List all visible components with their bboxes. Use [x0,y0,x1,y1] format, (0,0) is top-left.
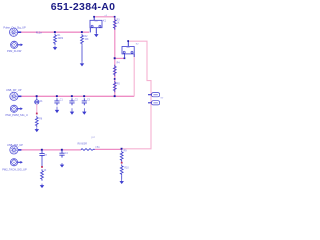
pin K2 bottom left [124,54,126,58]
resistor R4 [113,65,116,77]
ground arrow R2 [80,62,83,66]
resistor R3 top right [114,16,116,18]
svg-text:C1: C1 [60,99,64,101]
connector J2 [11,41,23,48]
capacitor C5 inline [39,151,44,158]
ground arrow C1 [55,107,58,113]
capacitor C4 [59,151,64,158]
node R9 R10 red [121,162,123,164]
svg-text:C4: C4 [65,153,69,155]
wire vertical mid net [114,28,116,97]
ground arrow R10 [120,180,123,184]
ground arrow R6 [35,128,38,132]
resistor R6 [35,116,38,128]
wire D1 down [36,104,38,113]
node row3 x42 [41,149,43,151]
svg-text:10K: 10K [85,39,90,41]
svg-text:1K: 1K [117,23,120,25]
resistor R1 [54,34,57,46]
capacitor C1 [54,98,59,105]
node row1 x55 [54,31,56,33]
svg-text:C2: C2 [75,99,79,101]
ground arrow C3 [83,108,86,114]
resistor R5 [113,81,116,93]
sheet pin PWR [148,93,164,100]
svg-text:gnd: gnd [91,136,96,139]
wire row3 right of series resistor [95,148,123,150]
connector J1 [10,28,22,36]
node x42 red [41,166,43,168]
node row2 x72 [71,95,73,97]
svg-text:PM2_FLOW: PM2_FLOW [7,49,22,53]
connector J5 [10,146,22,154]
ground arrow K1 [95,33,98,37]
svg-text:USB_DP_UP: USB_DP_UP [6,88,22,92]
svg-text:R9: R9 [124,150,128,152]
wire row2 net from connector J3 [21,95,134,97]
resistor R2 [81,34,84,46]
resistor R10 [120,164,123,176]
node row2 x115 [114,95,116,97]
ground arrow R7 [40,184,43,188]
wire top right path from relay K2 top [122,41,151,149]
capacitor C3 [82,98,87,105]
svg-text:R1: R1 [58,35,62,37]
capacitor C2 [69,98,74,105]
svg-text:R3: R3 [117,20,121,22]
svg-text:R8 600R: R8 600R [78,142,88,145]
svg-text:R10: R10 [124,167,129,169]
relay K1 [90,16,102,33]
connector J6 [10,159,22,166]
wire R2 down [81,45,83,62]
wire branch to relay K2 pin [115,57,125,59]
svg-text:K2: K2 [136,44,139,46]
connector J4 [10,105,22,112]
svg-text:FB1: FB1 [96,147,101,149]
wire box1 top net [94,17,115,28]
svg-text:USB_DM_UP: USB_DM_UP [7,143,23,147]
node row2 x57 [56,95,58,97]
node K2 pin [124,57,126,59]
svg-text:1K: 1K [44,170,47,172]
ground arrow C2 [70,108,73,114]
svg-text:R4: R4 [117,63,121,65]
svg-text:49R9: 49R9 [58,38,64,40]
wire x42 down [41,158,43,167]
resistor R7 [41,169,44,181]
node row2 x36.8 [36,95,38,97]
resistor R9 [120,150,123,162]
svg-text:Pulse_Out_Sig_UP: Pulse_Out_Sig_UP [3,26,26,30]
node D1 R6 [36,113,38,115]
wire relay K2 right pin down [133,54,135,96]
svg-text:D1: D1 [40,101,44,103]
node T mid [114,57,116,59]
connector J3 [10,92,22,100]
svg-text:R5: R5 [117,84,121,86]
diode D1 [35,97,39,104]
svg-text:PM2_PWM_SIG_U: PM2_PWM_SIG_U [6,113,28,117]
relay K2 [122,40,134,57]
node mid x115 [114,78,116,80]
node row3 x62 [61,149,63,151]
svg-text:K1: K1 [103,20,107,23]
title part number [0,1,166,13]
wire R10 down [121,176,123,180]
wire row1 net from connector J1 [21,31,89,33]
svg-text:PM2_TACH_SIG_UP: PM2_TACH_SIG_UP [2,167,27,171]
resistor R8 series row3 [81,149,95,151]
svg-text:R6: R6 [39,119,43,121]
node row1 x82 [81,31,83,33]
ground arrow R1 [53,46,56,50]
ground arrow C4 [60,163,63,167]
wire row3 net from connector J5 [21,149,81,151]
svg-text:R_1n: R_1n [36,31,42,34]
sheet pin GND [148,101,160,105]
svg-text:C3: C3 [87,99,91,101]
svg-text:5V: 5V [161,98,164,100]
node row3 x121.7 [121,148,123,150]
node row2 x84.3 [83,95,85,97]
svg-text:R2: R2 [85,36,89,38]
